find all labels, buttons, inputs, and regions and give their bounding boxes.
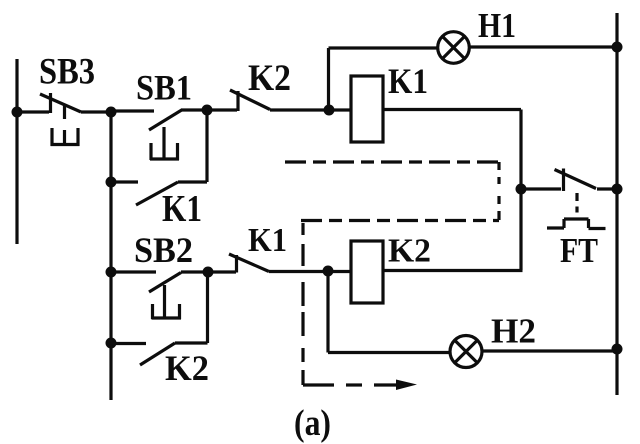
contact K2 self-hold (NO) — [112, 343, 208, 365]
wire: H1 row right — [469, 45, 618, 48]
wire: K2 coil input — [328, 270, 351, 273]
node: dot SB1 right junction — [202, 105, 213, 116]
contact FT thermal overload (NC) — [521, 169, 617, 229]
node: junction dot left rail / SB3 — [12, 107, 23, 118]
node: dot SB3/SB1 junction — [106, 107, 117, 118]
node: dot SB2 right junction — [203, 267, 214, 278]
svg-text:K1: K1 — [248, 222, 287, 259]
wire: SB2 right branch vertical — [206, 272, 209, 343]
coil K2 — [351, 241, 383, 303]
linkage: dashed arrow bottom — [303, 380, 417, 391]
lamp H1 — [438, 32, 470, 64]
svg-text:FT: FT — [560, 231, 598, 270]
wire: right rail — [615, 13, 618, 395]
wire: H2 row right — [482, 349, 617, 352]
svg-text:SB3: SB3 — [39, 52, 95, 93]
svg-text:(a): (a) — [294, 403, 331, 444]
wire: far-left supply rail — [15, 59, 18, 244]
wire: H1 row left — [329, 46, 438, 49]
wire: K1 coil output — [383, 108, 521, 111]
svg-text:K2: K2 — [248, 58, 291, 99]
coil K1 — [351, 76, 383, 142]
svg-text:SB2: SB2 — [134, 230, 193, 270]
contact K1 interlock (NC) bottom row — [208, 254, 328, 273]
svg-text:H2: H2 — [491, 312, 536, 351]
contact K1 self-hold (NO) — [111, 182, 207, 205]
node: dot K2 self-hold branch — [106, 338, 117, 349]
linkage: dash-dot rectangle right — [497, 162, 500, 220]
wire: drop to H2 row — [326, 271, 329, 353]
pushbutton SB3 (NC) — [17, 93, 111, 146]
linkage: dash-dot rectangle bottom — [301, 219, 499, 222]
svg-text:K1: K1 — [162, 188, 202, 230]
node: dot H2 / right rail — [612, 344, 623, 355]
linkage: dashed vertical — [301, 223, 304, 385]
node: dot FT / right rail — [612, 184, 623, 195]
wire: SB1 right branch vertical — [205, 110, 208, 182]
node: dot K1 self-hold branch — [106, 177, 117, 188]
svg-text:K2: K2 — [165, 348, 209, 388]
wire: K1 coil input — [329, 108, 351, 111]
linkage: dash-dot rectangle top — [285, 160, 499, 163]
lamp H2 — [450, 336, 482, 368]
wire: K2 coil output — [383, 269, 523, 272]
contact K2 interlock (NC) top row — [207, 90, 329, 111]
wire: riser to H1 row — [327, 48, 330, 110]
svg-text:SB1: SB1 — [136, 68, 192, 108]
node: dot SB2 branch — [106, 267, 117, 278]
pushbutton SB1 (NO) — [111, 110, 207, 161]
svg-text:H1: H1 — [478, 6, 516, 45]
svg-text:K2: K2 — [388, 233, 431, 270]
wire: output vertical to FT — [519, 110, 522, 271]
pushbutton SB2 (NO) — [111, 272, 208, 319]
node: dot K2 coil / H2 branch — [323, 266, 334, 277]
node: dot FT junction — [516, 184, 527, 195]
wire: H2 row left — [328, 351, 450, 354]
wire: main left rail — [109, 112, 112, 400]
svg-text:K1: K1 — [388, 61, 428, 101]
node: dot H1 / right rail — [612, 42, 623, 53]
node: dot K1 coil / H1 branch — [324, 105, 335, 116]
